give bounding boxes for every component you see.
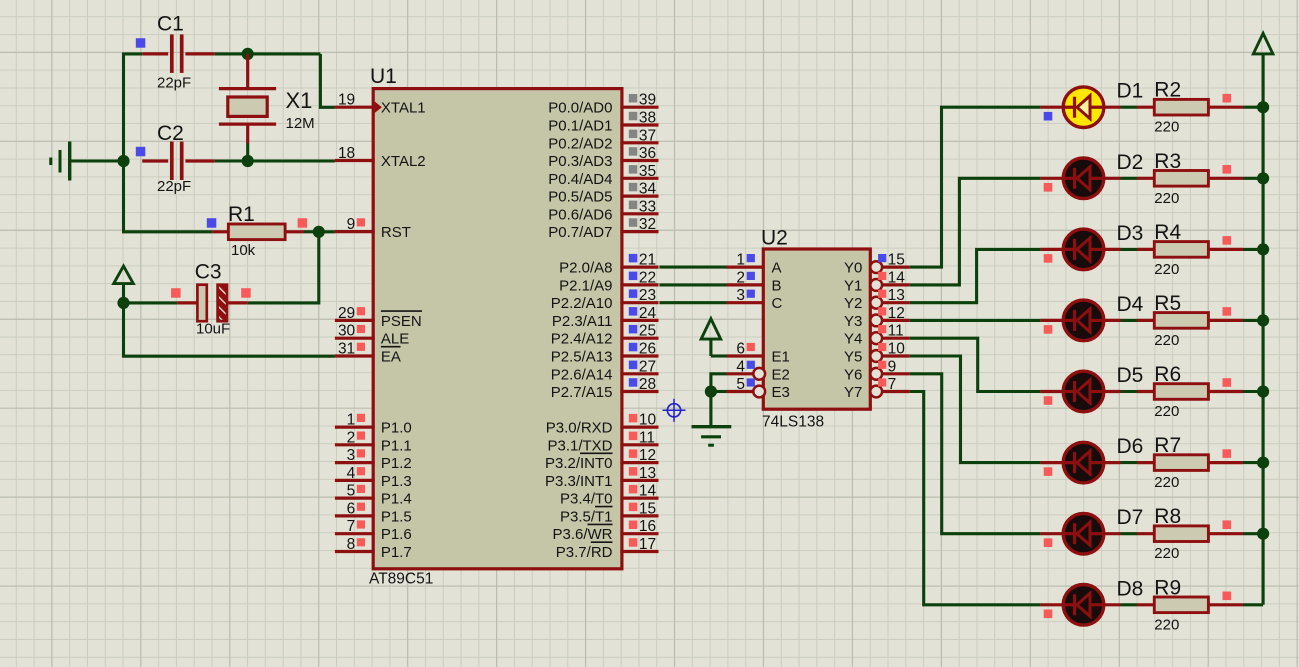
U1 pin number 18 [338,145,355,162]
svg-text:22pF: 22pF [157,178,191,195]
U1 pin 12 state square [629,449,638,458]
U1 pin name P1.0 [381,420,412,437]
U2 pin 6 stub (E1) [727,354,764,357]
U2 pin name Y2 [844,295,862,312]
svg-text:D1: D1 [1117,80,1144,103]
svg-text:D4: D4 [1117,293,1144,316]
wire stub into D5 [1040,390,1063,393]
svg-text:U1: U1 [370,65,397,88]
U1 pin name P3.1/TXD [547,437,612,454]
U1 pin name P0.3/AD3 [548,153,612,170]
U1 pin name P0.1/AD1 [548,118,612,135]
svg-text:D2: D2 [1117,151,1144,174]
U1 pin 26 state square [629,343,638,352]
U1 pin 28 state square [629,378,638,387]
svg-text:220: 220 [1154,261,1179,278]
resistor R4 [1154,242,1208,258]
svg-text:R7: R7 [1154,434,1181,457]
label R1 [228,203,255,226]
pin-state square D3 [1044,254,1053,263]
wire D7 to R8 [1104,532,1155,535]
wire Y7 to LED [910,392,1041,605]
U1 pin name P2.7/A15 [551,384,613,401]
U2 pin 13 state square [878,290,886,298]
label C3 [195,261,222,284]
svg-text:XTAL2: XTAL2 [381,153,426,170]
wire C2 to XTAL2 pin [215,159,335,162]
svg-text:PSEN: PSEN [381,313,422,330]
U2 pin name Y7 [844,384,862,401]
U1 pin 34 state square [629,183,638,192]
U1 pin 33 stub (P0.6/AD6) [620,212,658,215]
U2 pin name Y6 [844,366,862,383]
svg-text:9: 9 [888,358,897,375]
U2 pin 7 state square [878,378,886,386]
svg-text:P3.6/WR: P3.6/WR [552,526,612,543]
wire left vertical to R1 row [124,161,213,232]
svg-text:220: 220 [1154,332,1179,349]
value 220 (R8) [1154,545,1179,562]
U1 pin 6 state square [357,503,365,511]
label C1 [157,13,184,36]
U2 pin number 7 [888,376,897,393]
ground symbol (left) [51,142,70,181]
LED D5 [1063,371,1104,412]
node C3 left junction [117,297,129,309]
U2 pin number 3 [736,287,745,304]
U1 pin 36 stub (P0.3/AD3) [620,159,658,162]
wire P2.1 to U2 B [659,283,726,286]
U1 pin number 3 [347,447,356,464]
U1 pin number 28 [639,376,656,393]
pin-state square D5 [1044,396,1053,405]
svg-text:A: A [772,260,782,277]
value 22pF (C2) [157,178,191,195]
U1 pin 2 stub (P1.1) [335,443,375,446]
U1 pin 8 stub (P1.7) [335,550,375,553]
resistor R2 [1154,99,1208,115]
wire P2.0 to U2 A [659,266,726,269]
U1 pin 29 state square [357,307,365,315]
svg-text:Y6: Y6 [844,366,862,383]
svg-text:38: 38 [639,110,656,127]
svg-text:D7: D7 [1117,506,1144,529]
U1 pin 21 stub (P2.0/A8) [620,266,658,269]
wire stub into D6 [1040,461,1063,464]
U1 pin 38 stub (P0.1/AD1) [620,123,658,126]
pin-state square C3 left [171,288,181,298]
U2 pin number 10 [888,341,906,358]
wire junction down to ground [709,392,712,427]
U1 pin number 33 [639,198,656,215]
U1 pin 15 state square [629,503,638,512]
svg-text:30: 30 [338,323,356,340]
svg-text:22pF: 22pF [157,75,191,92]
U2 pin 4 state square [747,361,755,369]
value 220 (R6) [1154,403,1179,420]
svg-text:E2: E2 [772,366,790,383]
resistor R1 [212,224,304,240]
U2 pin 15 state square [878,254,886,262]
U1 pin 1 state square [357,414,365,422]
U1 pin number 36 [639,145,656,162]
node rail junction D2 [1257,172,1269,184]
svg-text:P0.5/AD5: P0.5/AD5 [548,189,612,206]
svg-text:2: 2 [736,269,745,286]
svg-text:P0.7/AD7: P0.7/AD7 [548,224,612,241]
svg-text:E3: E3 [772,384,790,401]
wire RST junction to pin 9 [319,230,335,233]
wire power rail [1262,54,1265,605]
U1 pin 35 stub (P0.4/AD4) [620,177,658,180]
wire R1 to RST junction [304,230,319,233]
svg-text:P2.6/A14: P2.6/A14 [551,366,613,383]
node E2/E3 junction [705,385,717,397]
value 12M [286,115,315,132]
svg-text:D8: D8 [1117,577,1144,600]
node rail junction D3 [1257,243,1269,255]
label X1 [286,88,313,113]
U2 pin number 11 [888,323,904,340]
label U1 [370,65,397,88]
pin-state square D7 [1044,538,1053,547]
U2 pin number 15 [888,252,905,269]
wire Y1 to LED [910,178,1041,285]
svg-text:P2.5/A13: P2.5/A13 [551,349,613,366]
ground symbol (below U2) [692,427,732,446]
svg-text:Y4: Y4 [844,331,862,348]
U1 pin 10 state square [629,414,638,423]
pin-state square D6 [1044,467,1053,476]
label R4 [1154,221,1181,244]
label R6 [1154,363,1181,386]
U2 pin 7 inversion bubble (Y7) [870,386,882,398]
svg-text:220: 220 [1154,545,1179,562]
svg-text:P2.3/A11: P2.3/A11 [552,313,613,330]
U1 pin 9 state square [357,218,365,226]
U1 pin number 13 [639,465,656,482]
U1 pin number 29 [338,305,355,322]
U1 pin 5 state square [357,485,365,493]
svg-text:P0.2/AD2: P0.2/AD2 [548,135,612,152]
U1 pin 9 stub (RST) [335,230,375,233]
U2 pin name C [772,295,783,312]
svg-text:U2: U2 [761,227,788,250]
U1 pin number 8 [347,536,356,553]
U2 pin 1 state square [747,254,755,262]
U1 pin number 39 [639,92,656,109]
U1 pin 37 stub (P0.2/AD2) [620,141,658,144]
LED D7 [1063,513,1104,554]
svg-text:17: 17 [639,536,656,553]
U1 pin number 14 [639,483,657,500]
svg-text:33: 33 [639,198,656,215]
U1 pin 22 stub (P2.1/A9) [620,283,658,286]
wire VCC node down to EA pin [124,303,335,356]
svg-text:36: 36 [639,145,656,162]
svg-text:2: 2 [347,429,356,446]
U1 pin name P2.3/A11 [552,313,613,330]
label C2 [157,122,184,145]
U1 pin name PSEN [381,311,422,330]
svg-text:P3.0/RXD: P3.0/RXD [546,420,613,437]
U1 pin 26 stub (P2.5/A13) [620,354,658,357]
U2 pin number 12 [888,305,905,322]
label R8 [1154,505,1181,528]
U1 pin number 37 [639,127,656,144]
U1 pin 11 stub (P3.1/TXD) [620,443,658,446]
U2 pin 13 inversion bubble (Y2) [870,297,882,309]
svg-text:14: 14 [888,269,906,286]
U1 pin number 11 [639,429,655,446]
U2 pin 15 inversion bubble (Y0) [870,261,882,273]
U1 pin 16 stub (P3.6/WR) [620,532,658,535]
U2 pin 14 state square [878,272,886,280]
U2 pin 12 stub [882,319,910,322]
U1 pin 38 state square [629,112,638,121]
wire E2 to ground column [711,374,727,392]
svg-text:P0.4/AD4: P0.4/AD4 [548,171,612,188]
U1 pin 6 stub (P1.5) [335,514,375,517]
U2 pin 7 stub [882,390,910,393]
U2 pin number 5 [736,376,745,393]
wire D2 to R3 [1104,177,1155,180]
U1 pin name P0.2/AD2 [548,135,612,152]
wire R2 to power rail [1208,106,1263,109]
svg-text:24: 24 [639,305,657,322]
U2 pin name E2 [772,366,790,383]
svg-text:25: 25 [639,323,656,340]
resistor R7 [1154,455,1208,471]
svg-text:R8: R8 [1154,505,1181,528]
U2 pin 2 stub (B) [727,283,764,286]
U1 pin 14 stub (P3.4/T0) [620,497,658,500]
U1 pin name ALE [381,331,409,348]
U1 pin number 12 [639,447,656,464]
U1 pin name P1.3 [381,473,412,490]
U1 pin name P1.5 [381,508,412,525]
U2 pin name A [772,260,782,277]
wire D4 to R5 [1104,319,1155,322]
label D7 [1117,506,1144,529]
U2 pin 1 stub (A) [727,266,764,269]
U1 pin 8 state square [357,538,365,546]
svg-text:21: 21 [639,252,656,269]
pin-state square R6 [1223,378,1232,387]
U1 pin 25 state square [629,325,638,334]
U1 pin number 6 [347,500,356,517]
U1 pin number 5 [347,483,356,500]
svg-text:74LS138: 74LS138 [762,414,824,431]
power symbol VCC (C3) [114,266,134,303]
U1 pin number 16 [639,518,656,535]
label R7 [1154,434,1181,457]
U2 pin name Y1 [844,277,862,294]
pin-state square C2 [136,147,146,157]
svg-text:3: 3 [736,287,745,304]
pin-state square D4 [1044,325,1053,334]
U1 pin number 19 [338,92,355,109]
U1 pin 13 stub (P3.3/INT1) [620,479,658,482]
U1 pin name P3.7/RD [556,542,613,561]
svg-text:7: 7 [347,518,356,535]
svg-text:D6: D6 [1117,435,1144,458]
wire stub into D3 [1040,248,1063,251]
label D1 [1117,80,1144,103]
resistor R5 [1154,313,1208,329]
svg-text:ALE: ALE [381,331,409,348]
origin marker (blue crosshair) [663,399,686,422]
label R3 [1154,150,1181,173]
U2 pin 4 stub (E2) [727,372,754,375]
U2 pin 12 inversion bubble (Y3) [870,315,882,327]
U1 pin number 35 [639,163,656,180]
U1 pin name P1.7 [381,544,412,561]
svg-text:37: 37 [639,127,656,144]
wire Y6 to LED [910,374,1041,534]
wire R7 to power rail [1208,461,1263,464]
U1 pin 23 stub (P2.2/A10) [620,301,658,304]
LED D1 [1063,87,1104,128]
svg-text:18: 18 [338,145,355,162]
U2 pin 10 stub [882,354,910,357]
LED D8 [1063,585,1104,626]
wire D1 to R2 [1104,106,1155,109]
svg-text:P0.6/AD6: P0.6/AD6 [548,206,612,223]
U1 pin name P0.6/AD6 [548,206,612,223]
svg-text:RST: RST [381,224,411,241]
label D3 [1117,222,1144,245]
node ground junction [117,155,129,167]
U1 pin name XTAL1 [381,100,426,117]
node rail junction D6 [1257,457,1269,469]
wire stub into D7 [1040,532,1063,535]
svg-text:6: 6 [736,341,745,358]
U1 pin 30 state square [357,325,365,333]
value 220 (R4) [1154,261,1179,278]
svg-text:220: 220 [1154,119,1179,136]
U2 pin 13 stub [882,301,910,304]
value 220 (R5) [1154,332,1179,349]
U1 pin 24 state square [629,307,638,316]
U1 pin 15 stub (P3.5/T1) [620,514,658,517]
U1 pin name P3.4/T0 [560,491,613,508]
svg-text:39: 39 [639,92,656,109]
wire P2.2 to U2 C [659,301,726,304]
resistor R3 [1154,171,1208,187]
svg-text:Y1: Y1 [844,277,862,294]
svg-text:19: 19 [338,92,355,109]
U2 pin 9 stub [882,372,910,375]
U1 pin 33 state square [629,201,638,210]
U1 pin number 22 [639,269,656,286]
label D4 [1117,293,1144,316]
svg-text:Y0: Y0 [844,260,862,277]
value 220 (R2) [1154,119,1179,136]
U1 pin name P1.1 [381,437,412,454]
U1 pin 36 state square [629,147,638,156]
U1 pin name P2.4/A12 [551,331,613,348]
U1 pin number 4 [347,465,356,482]
svg-text:4: 4 [736,358,745,375]
U1 pin number 7 [347,518,356,535]
pin-state square C1 [136,38,146,48]
U2 body 74LS138 [763,249,870,409]
wire D8 to R9 [1104,603,1155,606]
svg-text:11: 11 [639,429,655,446]
pin-state square C3 right [241,288,251,298]
value 220 (R3) [1154,190,1179,207]
power symbol VCC (E1) [701,319,721,356]
label R5 [1154,292,1181,315]
U1 pin 10 stub (P3.0/RXD) [620,426,658,429]
svg-text:B: B [772,277,782,294]
svg-text:D3: D3 [1117,222,1144,245]
svg-text:C2: C2 [157,122,184,145]
svg-text:P3.7/RD: P3.7/RD [556,544,613,561]
U2 pin number 13 [888,287,905,304]
U2 pin number 14 [888,269,906,286]
U1 pin 2 state square [357,432,365,440]
svg-text:32: 32 [639,216,656,233]
U1 pin 23 state square [629,289,638,298]
svg-text:P2.1/A9: P2.1/A9 [559,277,612,294]
wire RST junction down to C3 [247,232,318,303]
svg-text:10uF: 10uF [196,321,230,338]
U1 pin 3 stub (P1.2) [335,461,375,464]
U1 pin 28 stub (P2.7/A15) [620,390,658,393]
power symbol VCC (rail top) [1253,33,1273,54]
U1 pin 31 stub (EA) [335,354,375,357]
node rail junction D1 [1257,101,1269,113]
node rail junction D7 [1257,528,1269,540]
wire VCC node to C3 [124,301,178,304]
svg-text:P2.4/A12: P2.4/A12 [551,331,613,348]
svg-text:12M: 12M [286,115,315,132]
U1 pin number 26 [639,341,656,358]
wire left vertical to C1 row [124,54,143,161]
resistor R6 [1154,384,1208,400]
U1 pin 5 stub (P1.4) [335,497,375,500]
U1 pin 27 stub (P2.6/A14) [620,372,658,375]
U1 pin name P3.3/INT1 [545,473,613,490]
pin-state square D2 [1044,183,1053,192]
label D8 [1117,577,1144,600]
svg-text:C1: C1 [157,13,184,36]
label AT89C51 [369,571,433,588]
U2 pin 10 state square [878,343,886,351]
U1 pin 16 state square [629,521,638,530]
pin-state square R1 left [207,218,217,228]
svg-text:31: 31 [338,341,355,358]
U1 pin number 24 [639,305,657,322]
U2 pin 3 stub (C) [727,301,764,304]
U1 pin 3 state square [357,449,365,457]
pin-state square R8 [1223,520,1232,529]
U1 pin name P0.7/AD7 [548,224,612,241]
wire R8 to power rail [1208,532,1263,535]
U1 pin name P1.4 [381,491,412,508]
wire into XTAL1 pin [320,54,335,107]
U2 pin number 1 [736,252,745,269]
wire R5 to power rail [1208,319,1263,322]
U1 pin 18 stub (XTAL2) [335,159,375,162]
svg-text:Y5: Y5 [844,349,862,366]
U1 pin number 27 [639,358,656,375]
svg-text:220: 220 [1154,616,1179,633]
svg-text:13: 13 [639,465,656,482]
value 10uF [196,321,230,338]
